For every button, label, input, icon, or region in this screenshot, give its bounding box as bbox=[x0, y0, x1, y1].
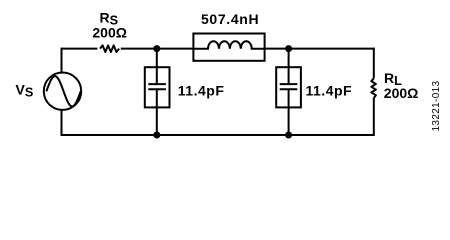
capacitor C2 top lead bbox=[288, 49, 290, 85]
svg-text:200Ω: 200Ω bbox=[384, 85, 419, 101]
node A junction dot (top of C1) bbox=[153, 45, 160, 52]
svg-text:507.4nH: 507.4nH bbox=[201, 11, 259, 27]
inductor L1 box outline bbox=[193, 34, 264, 61]
capacitor C1 top lead bbox=[156, 49, 158, 85]
inductor L1 coil (4 humps) bbox=[193, 41, 264, 48]
wire: bottom rail bbox=[62, 134, 374, 136]
wire: right rail top segment bbox=[373, 48, 375, 79]
svg-text:11.4pF: 11.4pF bbox=[178, 82, 225, 98]
wire: top rail left segment (VS corner to RS) bbox=[62, 48, 98, 50]
source VS circle bbox=[44, 73, 81, 110]
capacitor C1 bottom lead bbox=[156, 89, 158, 135]
svg-text:11.4pF: 11.4pF bbox=[306, 82, 353, 98]
capacitor C2 bottom lead bbox=[288, 89, 290, 135]
resistor RS bbox=[100, 45, 119, 52]
node B junction dot (top of C2) bbox=[285, 45, 292, 52]
svg-text:VS: VS bbox=[16, 82, 34, 100]
wire: right rail bottom segment bbox=[373, 98, 375, 136]
wire: top rail RS to inductor box (through node A) bbox=[121, 48, 194, 50]
capacitor C1 box outline bbox=[145, 67, 170, 107]
source VS sine wave bbox=[46, 76, 80, 106]
capacitor C2 plates bbox=[280, 84, 298, 89]
node C junction dot (bottom of C1) bbox=[153, 132, 160, 139]
wire: VS bottom lead bbox=[61, 110, 63, 136]
svg-text:200Ω: 200Ω bbox=[92, 24, 127, 40]
node D junction dot (bottom of C2) bbox=[285, 132, 292, 139]
wire: top rail inductor to top-right corner (through node B) bbox=[265, 48, 374, 50]
capacitor C1 plates bbox=[148, 84, 166, 89]
capacitor C2 box outline bbox=[276, 67, 301, 107]
wire: VS top lead bbox=[61, 48, 63, 73]
resistor RL (vertical zigzag) bbox=[371, 78, 376, 98]
svg-text:13221-013: 13221-013 bbox=[431, 80, 442, 131]
